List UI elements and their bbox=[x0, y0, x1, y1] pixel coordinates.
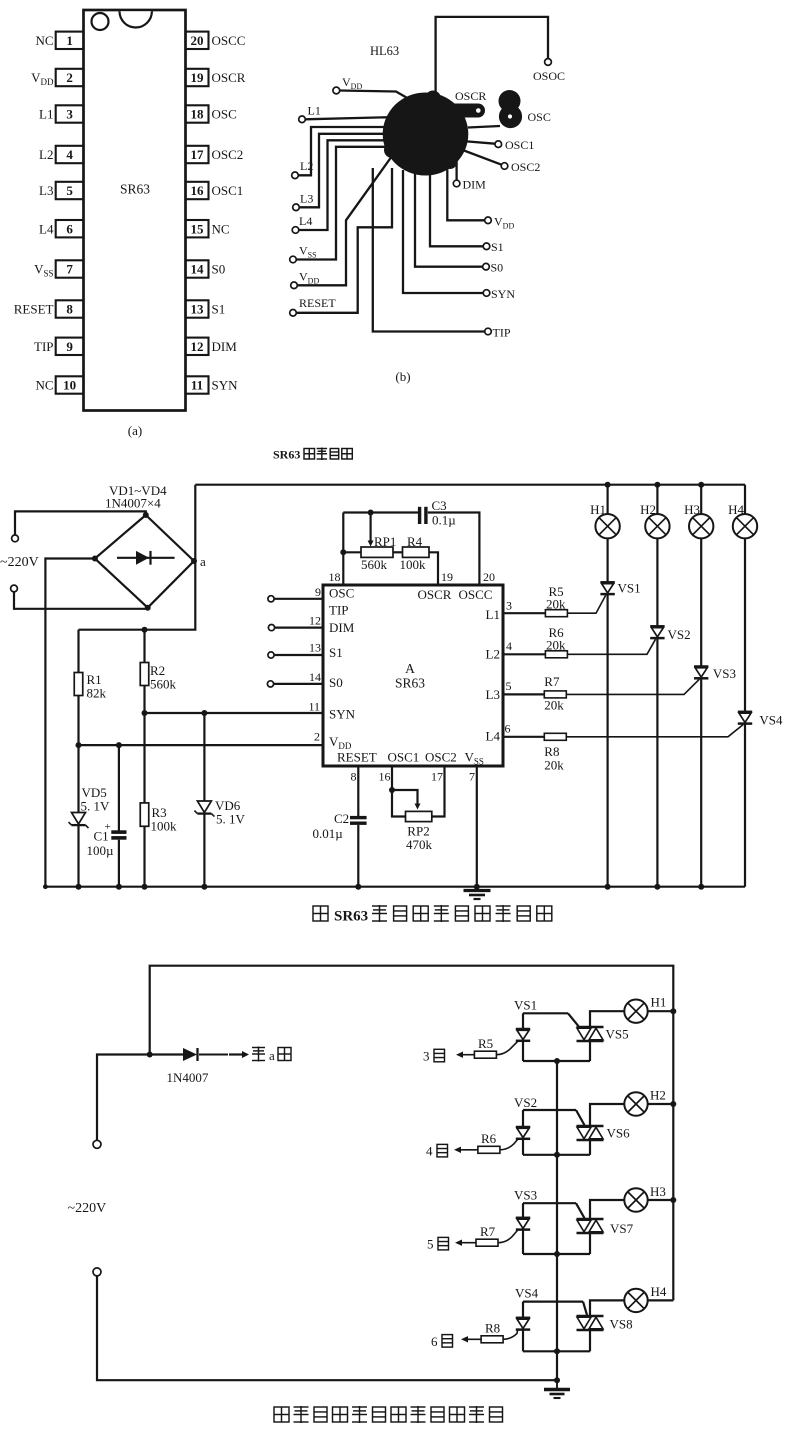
RP1 wiper arrow bbox=[370, 513, 372, 542]
pin 12 DIM stub bbox=[268, 625, 274, 631]
pin 1 (NC) left bbox=[56, 32, 84, 49]
svg-text:VS7: VS7 bbox=[610, 1221, 634, 1236]
svg-text:6: 6 bbox=[66, 221, 73, 236]
resistor R3 bbox=[143, 713, 145, 803]
RP2 wiper arrow bbox=[392, 790, 418, 805]
node SYN-R2 bbox=[142, 710, 148, 716]
wire OSC1 bbox=[462, 141, 495, 144]
pin 13 (S1) right bbox=[186, 300, 209, 317]
wire R5 to VS1 gate bbox=[567, 595, 605, 613]
svg-text:A: A bbox=[405, 661, 415, 676]
svg-text:(a): (a) bbox=[128, 423, 142, 438]
svg-text:17: 17 bbox=[431, 770, 443, 784]
label zhi a dian bbox=[252, 1047, 265, 1062]
wire bottom VS2 bbox=[523, 1154, 590, 1156]
svg-text:RESET: RESET bbox=[337, 750, 377, 765]
pin 2 (VDD) left bbox=[56, 69, 84, 86]
terminal OSC2 bbox=[501, 163, 508, 170]
wire lamp H3 to triac VS7 bbox=[590, 1200, 624, 1219]
svg-text:100k: 100k bbox=[151, 819, 178, 834]
svg-text:L1: L1 bbox=[486, 607, 500, 622]
svg-text:OSC1: OSC1 bbox=[388, 750, 420, 765]
svg-text:H3: H3 bbox=[684, 502, 700, 517]
svg-text:DIM: DIM bbox=[212, 339, 238, 354]
svg-text:S1: S1 bbox=[212, 302, 226, 317]
svg-text:20k: 20k bbox=[544, 698, 564, 713]
svg-text:L3: L3 bbox=[486, 687, 500, 702]
svg-text:OSC: OSC bbox=[329, 586, 354, 601]
svg-text:10: 10 bbox=[63, 378, 76, 393]
svg-text:VS2: VS2 bbox=[668, 627, 691, 642]
pin 4 (L2) left bbox=[56, 146, 84, 163]
svg-text:3: 3 bbox=[506, 599, 512, 613]
pin 11 (SYN) right bbox=[186, 376, 209, 393]
gate wire R5 to VS1 bbox=[496, 1042, 517, 1055]
IC A SR63 block bbox=[323, 585, 503, 766]
svg-text:VS4: VS4 bbox=[515, 1286, 539, 1301]
AC terminal top bbox=[12, 535, 19, 542]
svg-text:14: 14 bbox=[309, 670, 321, 684]
wire VS3 anode top bbox=[523, 1202, 576, 1204]
wire R7 to VS3 gate bbox=[566, 679, 699, 694]
capacitor C1 100u bbox=[118, 745, 120, 830]
lamp H1 bbox=[605, 482, 611, 488]
wire AC top to bridge bbox=[15, 511, 146, 535]
svg-text:VS1: VS1 bbox=[618, 581, 641, 596]
svg-text:L4: L4 bbox=[486, 729, 501, 744]
svg-text:S0: S0 bbox=[329, 675, 343, 690]
svg-text:L4: L4 bbox=[299, 214, 312, 228]
svg-text:12: 12 bbox=[191, 339, 204, 354]
svg-text:R6: R6 bbox=[481, 1131, 497, 1146]
pin 12 (DIM) right bbox=[186, 338, 209, 355]
svg-text:H1: H1 bbox=[590, 502, 606, 517]
svg-text:5: 5 bbox=[66, 183, 73, 198]
wire node a up to top rail bbox=[194, 485, 195, 561]
pin 6 stub and resistor R8 20k bbox=[503, 736, 544, 738]
pin 7 (VSS) left bbox=[56, 260, 84, 277]
wire OSC link bbox=[468, 126, 500, 128]
wire left vertex to left rail bbox=[45, 559, 95, 887]
thyristor VS4 bbox=[744, 538, 746, 711]
svg-text:VS6: VS6 bbox=[607, 1126, 631, 1141]
svg-text:R7: R7 bbox=[480, 1224, 496, 1239]
lamp H4 bbox=[744, 485, 746, 514]
svg-text:NC: NC bbox=[212, 221, 230, 236]
svg-text:14: 14 bbox=[191, 262, 205, 277]
svg-text:VS2: VS2 bbox=[514, 1095, 537, 1110]
node bottom vertex bbox=[145, 605, 151, 611]
terminal L4 bbox=[292, 227, 299, 234]
caption middle schematic bbox=[313, 906, 328, 921]
svg-text:3: 3 bbox=[66, 107, 73, 122]
svg-text:6: 6 bbox=[431, 1334, 438, 1349]
svg-text:5. 1V: 5. 1V bbox=[81, 799, 111, 814]
svg-text:HL63: HL63 bbox=[370, 44, 399, 58]
wire DIM bbox=[455, 160, 457, 180]
node top vertex bbox=[143, 512, 149, 518]
svg-text:SR63: SR63 bbox=[120, 182, 150, 197]
gate wire R6 to VS2 bbox=[500, 1140, 518, 1150]
thyristor VS2 bbox=[656, 538, 658, 626]
svg-text:VS4: VS4 bbox=[759, 713, 783, 728]
svg-text:~220V: ~220V bbox=[68, 1201, 107, 1216]
resistor R1 bbox=[142, 627, 148, 633]
svg-text:12: 12 bbox=[309, 614, 321, 628]
svg-text:S1: S1 bbox=[329, 645, 343, 660]
svg-text:1N4007: 1N4007 bbox=[167, 1070, 209, 1085]
wire VSS bbox=[296, 147, 392, 260]
resistor R7 bbox=[476, 1239, 498, 1246]
bottom rail bbox=[45, 886, 745, 888]
wire bottom VS1 bbox=[523, 1060, 590, 1062]
svg-text:17: 17 bbox=[191, 147, 205, 162]
bridge inner diode bbox=[117, 557, 175, 559]
OSCR bonding bar bbox=[449, 104, 478, 118]
svg-text:C2: C2 bbox=[334, 811, 349, 826]
thyristor VS1 bbox=[606, 538, 608, 582]
wire R6 to VS2 gate bbox=[567, 639, 655, 654]
svg-text:SR63: SR63 bbox=[273, 448, 300, 462]
triac VS8 bbox=[577, 1315, 604, 1318]
svg-text:a: a bbox=[200, 554, 206, 569]
svg-text:VS5: VS5 bbox=[606, 1027, 629, 1042]
svg-text:OSC: OSC bbox=[212, 107, 237, 122]
pin 17 (OSC2) right bbox=[186, 146, 209, 163]
svg-text:RESET: RESET bbox=[14, 302, 54, 317]
svg-text:RESET: RESET bbox=[299, 296, 336, 310]
diode 1N4007 bbox=[183, 1048, 197, 1061]
svg-text:a: a bbox=[269, 1048, 275, 1063]
capacitor C3 0.1u bbox=[343, 511, 418, 513]
svg-text:18: 18 bbox=[329, 570, 341, 584]
resistor R5 bbox=[474, 1051, 496, 1058]
svg-text:SYN: SYN bbox=[212, 378, 239, 393]
lamp H4 bottom schematic bbox=[624, 1289, 647, 1312]
terminal VDD top-left bbox=[333, 87, 340, 94]
svg-text:L1: L1 bbox=[308, 104, 321, 118]
wire L1 bbox=[305, 117, 398, 119]
svg-text:OSC1: OSC1 bbox=[212, 183, 244, 198]
bridge rectifier VD1~VD4 diamond bbox=[95, 515, 194, 608]
terminal OSOC bbox=[545, 59, 552, 66]
svg-text:3: 3 bbox=[423, 1049, 430, 1064]
svg-text:S1: S1 bbox=[491, 240, 504, 254]
wire lamp H2 to rail bbox=[648, 1103, 674, 1105]
svg-text:H4: H4 bbox=[651, 1284, 667, 1299]
svg-text:L2: L2 bbox=[486, 647, 500, 662]
node SYN-VD6 bbox=[201, 710, 207, 716]
svg-text:TIP: TIP bbox=[493, 326, 511, 340]
caption bottom schematic bbox=[274, 1407, 289, 1422]
svg-text:VS3: VS3 bbox=[713, 666, 736, 681]
arrow pin 5 bbox=[459, 1242, 476, 1244]
svg-text:OSOC: OSOC bbox=[533, 69, 565, 83]
svg-text:13: 13 bbox=[309, 641, 321, 655]
top notch bbox=[120, 11, 152, 27]
terminal L3 bbox=[293, 204, 300, 211]
gate wire R8 to VS4 bbox=[503, 1330, 517, 1339]
capacitor C2 0.01u bbox=[350, 816, 367, 819]
svg-text:OSCR: OSCR bbox=[212, 70, 246, 85]
wire OSC2 diagonal bbox=[460, 149, 502, 165]
pin 9 OSC/TIP stub bbox=[268, 596, 274, 602]
node left vertex bbox=[92, 556, 98, 562]
svg-text:16: 16 bbox=[191, 183, 205, 198]
svg-text:19: 19 bbox=[191, 70, 205, 85]
svg-text:RP1: RP1 bbox=[374, 534, 396, 549]
arrow to node a bbox=[229, 1053, 245, 1055]
svg-text:7: 7 bbox=[469, 770, 475, 784]
IC package SR63 DIP-20 body bbox=[84, 10, 186, 411]
svg-text:H1: H1 bbox=[651, 995, 667, 1010]
svg-text:S0: S0 bbox=[212, 262, 226, 277]
node diode junction bbox=[147, 1052, 153, 1058]
terminal VSS bbox=[290, 256, 297, 263]
wire S0 bbox=[415, 172, 483, 267]
wire node a down to R1/R2 row bbox=[79, 561, 196, 630]
svg-text:H2: H2 bbox=[650, 1088, 666, 1103]
svg-text:0.01µ: 0.01µ bbox=[313, 826, 344, 841]
svg-text:OSC: OSC bbox=[528, 110, 551, 124]
svg-text:R7: R7 bbox=[544, 674, 560, 689]
svg-text:SR63: SR63 bbox=[334, 909, 368, 925]
svg-text:560k: 560k bbox=[361, 557, 388, 572]
arrow pin 6 bbox=[465, 1338, 481, 1340]
svg-text:OSC1: OSC1 bbox=[505, 138, 534, 152]
svg-text:C1: C1 bbox=[94, 829, 109, 844]
AC terminal top bottom-schematic bbox=[93, 1140, 101, 1148]
node C1 tap bbox=[116, 742, 122, 748]
node RP2 tap bbox=[389, 787, 395, 793]
lamp H3 bbox=[698, 482, 704, 488]
svg-text:SYN: SYN bbox=[491, 287, 515, 301]
resistor R6 bbox=[478, 1146, 500, 1153]
svg-text:OSC2: OSC2 bbox=[425, 750, 457, 765]
svg-text:18: 18 bbox=[191, 107, 205, 122]
resistor R4 100k bbox=[393, 551, 403, 553]
wire OSOC top bbox=[436, 17, 548, 131]
gate wire R7 to VS3 bbox=[498, 1230, 518, 1242]
wire lamp H1 to rail bbox=[648, 1010, 674, 1012]
terminal L1 bbox=[299, 116, 306, 123]
svg-text:VS1: VS1 bbox=[514, 998, 537, 1013]
resistor R2 bbox=[143, 630, 145, 663]
svg-text:H3: H3 bbox=[650, 1184, 666, 1199]
bottom return wire bbox=[97, 1276, 557, 1380]
wire AC bottom to bridge bbox=[14, 592, 148, 609]
pin 17 wire OSC2 bbox=[432, 766, 445, 817]
svg-text:8: 8 bbox=[351, 770, 357, 784]
pin 20 (OSCC) right bbox=[186, 32, 209, 49]
resistor R8 bbox=[481, 1336, 503, 1343]
pin 9 (TIP) left bbox=[56, 338, 84, 355]
svg-text:L3: L3 bbox=[39, 183, 53, 198]
wire lamp H3 to rail bbox=[648, 1199, 674, 1201]
wire lamp H4 to triac VS8 bbox=[590, 1300, 624, 1316]
svg-text:560k: 560k bbox=[150, 677, 177, 692]
wire RESET bbox=[296, 168, 392, 313]
svg-text:R5: R5 bbox=[478, 1036, 493, 1051]
triac VS5 bbox=[577, 1026, 604, 1029]
wire L4 bbox=[299, 140, 394, 230]
wire lamp H1 to triac VS5 bbox=[590, 1011, 624, 1027]
svg-text:OSCR: OSCR bbox=[455, 89, 486, 103]
svg-text:VS3: VS3 bbox=[514, 1188, 537, 1203]
pin 5 stub and resistor R7 20k bbox=[503, 693, 544, 695]
svg-text:2: 2 bbox=[314, 730, 320, 744]
thyristor VS3 bbox=[700, 538, 702, 666]
wire VDD left diagonal bbox=[297, 156, 392, 285]
svg-text:SR63: SR63 bbox=[395, 676, 425, 691]
lamp H1 bottom schematic bbox=[624, 1000, 647, 1023]
svg-text:19: 19 bbox=[441, 570, 453, 584]
index circle bbox=[92, 13, 109, 30]
svg-text:20k: 20k bbox=[546, 596, 566, 611]
pin 7 wire VSS bbox=[476, 766, 478, 887]
svg-text:SYN: SYN bbox=[329, 707, 356, 722]
wire L2 bbox=[298, 127, 398, 175]
pin 16 wire OSC1 bbox=[392, 766, 406, 817]
pin 8 (RESET) left bbox=[56, 300, 84, 317]
zener VD6 5.1V bbox=[203, 713, 205, 801]
svg-text:1: 1 bbox=[66, 33, 73, 48]
lamp H3 bottom schematic bbox=[624, 1188, 647, 1211]
svg-text:100k: 100k bbox=[400, 557, 427, 572]
potentiometer RP2 470k bbox=[406, 811, 432, 821]
svg-text:VS8: VS8 bbox=[610, 1317, 633, 1332]
terminal RESET bbox=[290, 310, 297, 317]
wire bottom VS3 bbox=[523, 1253, 590, 1255]
pin 5 (L3) left bbox=[56, 182, 84, 199]
svg-text:100µ: 100µ bbox=[87, 843, 115, 858]
svg-text:C3: C3 bbox=[432, 498, 447, 513]
svg-text:6: 6 bbox=[505, 722, 511, 736]
svg-text:NC: NC bbox=[35, 378, 53, 393]
wire R8 to VS4 gate bbox=[566, 725, 743, 737]
pin 3 (L1) left bbox=[56, 105, 84, 122]
svg-text:9: 9 bbox=[315, 585, 321, 599]
svg-text:2: 2 bbox=[66, 70, 73, 85]
svg-text:DIM: DIM bbox=[329, 620, 355, 635]
svg-text:5: 5 bbox=[427, 1237, 434, 1252]
svg-text:L2: L2 bbox=[39, 147, 53, 162]
wire AC to diode bbox=[97, 1055, 183, 1141]
zener VD5 5.1V bbox=[77, 745, 79, 812]
terminal TIP bbox=[485, 328, 492, 335]
svg-text:R8: R8 bbox=[485, 1321, 500, 1336]
svg-text:13: 13 bbox=[191, 302, 205, 317]
node RP1 left bbox=[340, 549, 346, 555]
svg-text:H4: H4 bbox=[728, 502, 744, 517]
svg-text:20: 20 bbox=[483, 570, 495, 584]
svg-text:470k: 470k bbox=[406, 837, 433, 852]
svg-text:OSCC: OSCC bbox=[212, 33, 246, 48]
pin 18 wire OSC bbox=[342, 513, 344, 586]
pin 14 (S0) right bbox=[186, 260, 209, 277]
pin 3 stub and resistor R5 20k bbox=[503, 612, 545, 614]
svg-text:S0: S0 bbox=[491, 261, 504, 275]
svg-text:~220V: ~220V bbox=[0, 555, 39, 570]
svg-text:4: 4 bbox=[66, 147, 73, 162]
svg-text:20: 20 bbox=[191, 33, 204, 48]
svg-text:H2: H2 bbox=[640, 502, 656, 517]
svg-text:NC: NC bbox=[35, 33, 53, 48]
svg-text:20k: 20k bbox=[546, 637, 566, 652]
svg-text:OSC2: OSC2 bbox=[212, 147, 244, 162]
svg-text:OSCC: OSCC bbox=[459, 587, 493, 602]
svg-text:5. 1V: 5. 1V bbox=[216, 812, 246, 827]
svg-text:OSC2: OSC2 bbox=[511, 160, 540, 174]
node VDD-R1 bbox=[76, 742, 82, 748]
terminal SYN bbox=[483, 290, 490, 297]
wire VDD top-left bbox=[340, 91, 416, 104]
ground bbox=[464, 889, 491, 892]
svg-text:11: 11 bbox=[191, 378, 203, 393]
lamp H2 bbox=[654, 482, 660, 488]
terminal S0 bbox=[483, 263, 490, 270]
common cathode line bbox=[556, 1061, 558, 1380]
triac VS7 bbox=[577, 1218, 604, 1221]
top rail bbox=[195, 484, 745, 486]
pin 16 (OSC1) right bbox=[186, 182, 209, 199]
wire VDD row pin2 bbox=[79, 744, 324, 746]
svg-text:DIM: DIM bbox=[463, 178, 487, 192]
wire L3 bbox=[299, 134, 396, 208]
wire TIP bbox=[373, 168, 485, 332]
wire VDD right bbox=[447, 165, 484, 220]
svg-text:OSCR: OSCR bbox=[418, 587, 452, 602]
pin 13 S1 stub bbox=[268, 652, 274, 658]
svg-text:9: 9 bbox=[66, 339, 73, 354]
pin 19 wire OSCR bbox=[429, 552, 438, 585]
pin 8 wire RESET bbox=[357, 766, 359, 816]
ground bottom schematic bbox=[556, 1380, 558, 1388]
wire lamp H4 to rail corner bbox=[648, 1299, 674, 1301]
svg-text:20k: 20k bbox=[544, 758, 564, 773]
svg-text:R4: R4 bbox=[407, 534, 423, 549]
svg-text:1N4007×4: 1N4007×4 bbox=[105, 496, 161, 511]
potentiometer RP1 560k bbox=[343, 551, 361, 553]
terminal OSC1 bbox=[495, 141, 502, 148]
wire VS2 anode top bbox=[523, 1109, 576, 1111]
wire S1 bbox=[430, 172, 483, 246]
terminal L2 bbox=[292, 172, 299, 179]
pin 19 (OSCR) right bbox=[186, 69, 209, 86]
wire VS1 anode top bbox=[523, 1012, 568, 1014]
chip blob HL63 die bbox=[383, 93, 469, 176]
svg-text:L1: L1 bbox=[39, 107, 53, 122]
terminal VDD left bbox=[291, 282, 298, 289]
svg-text:16: 16 bbox=[379, 770, 391, 784]
svg-text:11: 11 bbox=[308, 700, 320, 714]
top wire bottom schematic bbox=[150, 966, 674, 1301]
arrow pin 3 bbox=[460, 1054, 474, 1056]
pin 10 (NC) left bbox=[56, 376, 84, 393]
svg-text:(b): (b) bbox=[395, 369, 410, 384]
wire VS4 anode top bbox=[523, 1300, 583, 1302]
lamp H2 bottom schematic bbox=[624, 1092, 647, 1115]
svg-text:4: 4 bbox=[506, 639, 512, 653]
svg-text:8: 8 bbox=[66, 302, 73, 317]
svg-text:TIP: TIP bbox=[34, 339, 54, 354]
node a bbox=[191, 558, 197, 564]
svg-text:82k: 82k bbox=[87, 686, 107, 701]
pin 6 (L4) left bbox=[56, 220, 84, 237]
svg-text:7: 7 bbox=[66, 262, 73, 277]
wire bottom VS4 bbox=[523, 1350, 590, 1352]
triac VS6 bbox=[577, 1125, 604, 1128]
